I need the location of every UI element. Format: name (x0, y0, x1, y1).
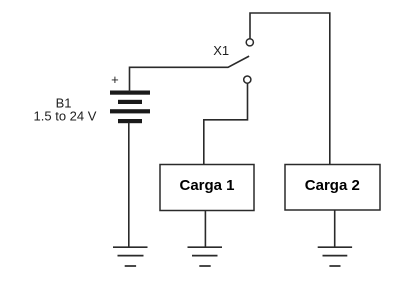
svg-text:Carga 1: Carga 1 (179, 177, 234, 194)
svg-text:+: + (111, 72, 119, 87)
svg-text:Carga 2: Carga 2 (305, 177, 360, 194)
svg-text:X1: X1 (213, 43, 229, 58)
svg-text:1.5 to 24 V: 1.5 to 24 V (34, 108, 97, 123)
